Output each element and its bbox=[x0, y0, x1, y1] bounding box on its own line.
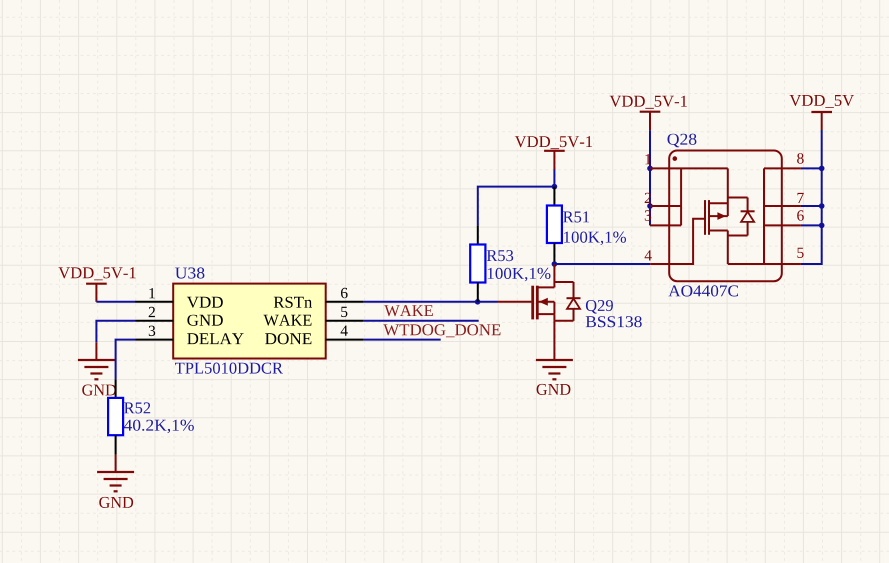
U38 pin 2 GND bbox=[136, 320, 174, 322]
wire to Q28 pin 4 bbox=[554, 263, 650, 265]
resistor R52 40.2K bbox=[115, 379, 117, 398]
resistor R53 100K bbox=[477, 225, 479, 244]
junction pin8 rail bbox=[819, 166, 825, 172]
net label WTDOG_DONE bbox=[383, 324, 500, 337]
power port VDD_5V bbox=[790, 95, 855, 108]
Q28 pin 1 bbox=[650, 167, 728, 169]
U38 comment TPL5010DDCR bbox=[175, 363, 283, 374]
Q28 pin 2 bbox=[650, 205, 681, 207]
junction pin7 rail bbox=[819, 203, 825, 209]
GND label (below R52) bbox=[99, 497, 133, 508]
U38 pin 4 DONE bbox=[326, 339, 364, 341]
Q28 pin-1 marker dot bbox=[673, 156, 678, 161]
Q28 pin 7 bbox=[764, 205, 801, 207]
Q28 comment AO4407C bbox=[668, 285, 738, 296]
R53 value label 100K,1% bbox=[488, 268, 551, 282]
R53 designator label bbox=[487, 250, 513, 261]
U38 pin numbers bbox=[149, 288, 155, 298]
ground GND (Q29 source) bbox=[553, 321, 555, 360]
Q28 pin 8 bbox=[764, 167, 801, 169]
junction at power/R51 bbox=[552, 184, 558, 190]
wire power stem down bbox=[553, 170, 555, 187]
R51 value label 100K,1% bbox=[564, 232, 626, 246]
junction on RSTn at R53 bbox=[475, 299, 481, 305]
Q28 pin 3 bbox=[650, 224, 681, 226]
wire U38 pin3 to R52 bbox=[116, 340, 136, 380]
Q28 pin 4 gate bbox=[650, 219, 704, 264]
wire power to U38 pin 1 bbox=[96, 301, 136, 303]
junction pin6 rail bbox=[819, 223, 825, 229]
U38 pin 5 WAKE bbox=[326, 320, 364, 322]
R52 value label 40.2K,1% bbox=[124, 420, 194, 434]
ground GND (left) bbox=[95, 342, 97, 360]
wire left rail of Q28 bbox=[649, 130, 651, 225]
wire RSTn net bbox=[364, 301, 498, 303]
R51 designator label bbox=[563, 211, 589, 222]
IC U38 TPL5010DDCR body bbox=[173, 284, 326, 359]
U38 pin 3 DELAY bbox=[136, 339, 174, 341]
Q28 pin 5 bbox=[728, 263, 801, 265]
resistor R51 100K bbox=[553, 187, 555, 206]
ground GND (below R52) bbox=[115, 455, 117, 472]
Q28 P-MOSFET bbox=[705, 168, 755, 264]
power port VDD_5V-1 (top right) bbox=[610, 96, 687, 109]
net label WAKE bbox=[384, 305, 433, 316]
U38 pin 6 RSTn bbox=[326, 301, 364, 303]
wire U38 pin2 to GND bbox=[96, 321, 135, 343]
junction pin1 rail bbox=[647, 166, 653, 172]
U38 pin names bbox=[187, 297, 223, 308]
Q28 designator bbox=[668, 134, 697, 148]
Q28 right drain rail bbox=[763, 168, 765, 264]
Q29 comment BSS138 bbox=[586, 316, 642, 327]
wire to R53 bbox=[478, 187, 555, 226]
wire WAKE net bbox=[364, 320, 479, 322]
U38 pin 1 VDD bbox=[136, 301, 174, 303]
transistor Q29 BSS138 bbox=[498, 264, 581, 321]
Q28 pin numbers bbox=[645, 154, 651, 164]
wire WTDOG_DONE net bbox=[364, 339, 441, 341]
Q28 pin 6 bbox=[764, 224, 801, 226]
power port VDD_5V-1 (middle) bbox=[515, 136, 592, 149]
GND label (Q29) bbox=[537, 384, 571, 395]
power port VDD_5V-1 (left) bbox=[58, 267, 135, 280]
GND label (left) bbox=[82, 385, 116, 396]
wire right rail of Q28 bbox=[801, 130, 822, 264]
U38 designator bbox=[175, 267, 204, 278]
Q28 left source rail bbox=[680, 168, 682, 225]
R52 designator label bbox=[124, 402, 150, 413]
transistor Q28 AO4407C body bbox=[669, 151, 782, 282]
junction R51 / Q29 drain / Q28 gate wire bbox=[552, 261, 558, 267]
junction pin2 rail bbox=[647, 203, 653, 209]
Q29 designator bbox=[586, 300, 613, 314]
